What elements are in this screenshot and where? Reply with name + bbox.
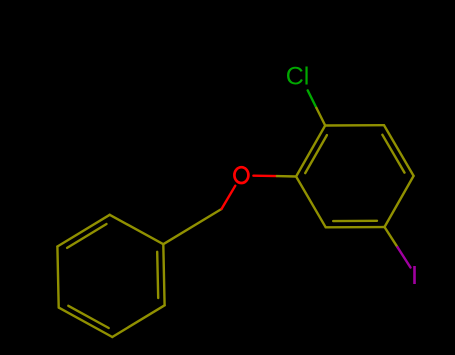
bond aryl-I, I half (purple) <box>398 247 411 267</box>
bond aryl-Cl, C half (olive) <box>316 108 325 126</box>
iodine atom label I <box>413 266 416 284</box>
left phenyl edge (right vertical, double) <box>163 244 164 305</box>
right ring edge F-A <box>296 177 326 228</box>
bond CH2-O (red) <box>222 186 236 209</box>
left phenyl edge C12-C7a (top right) <box>110 215 164 244</box>
svg-text:Cl: Cl <box>286 63 310 91</box>
right ring inner aromatic line E-F <box>333 220 377 223</box>
bond aryl-I, C half (olive) <box>385 227 398 247</box>
left phenyl edge (top left, double) <box>57 215 109 247</box>
left ring inner aromatic line (right) <box>157 252 158 298</box>
right ring inner aromatic line A-B <box>305 135 327 173</box>
left ring inner aromatic line (bottom-left) <box>68 306 108 328</box>
left phenyl edge (left vertical) <box>57 247 58 308</box>
right ring edge C-D (double) <box>384 125 414 176</box>
left phenyl edge (bottom right) <box>112 305 164 337</box>
bond O-aryl, O half (red) <box>253 174 277 177</box>
left ring inner aromatic line (top-left) <box>67 224 106 248</box>
oxygen atom label O <box>234 167 248 183</box>
right ring edge B-C top <box>325 124 384 127</box>
bond aryl-Cl, Cl half (green) <box>308 90 317 108</box>
right ring edge A-B (double) <box>296 126 325 177</box>
right ring inner aromatic line C-D <box>382 135 404 173</box>
left phenyl edge (bottom left, double) <box>59 308 113 337</box>
right ring edge E-F (double) <box>326 226 385 229</box>
right ring edge D-E <box>385 176 414 227</box>
benzylic bond CH2-phenyl <box>163 209 221 244</box>
bond O-aryl, C half (olive) <box>277 175 296 178</box>
